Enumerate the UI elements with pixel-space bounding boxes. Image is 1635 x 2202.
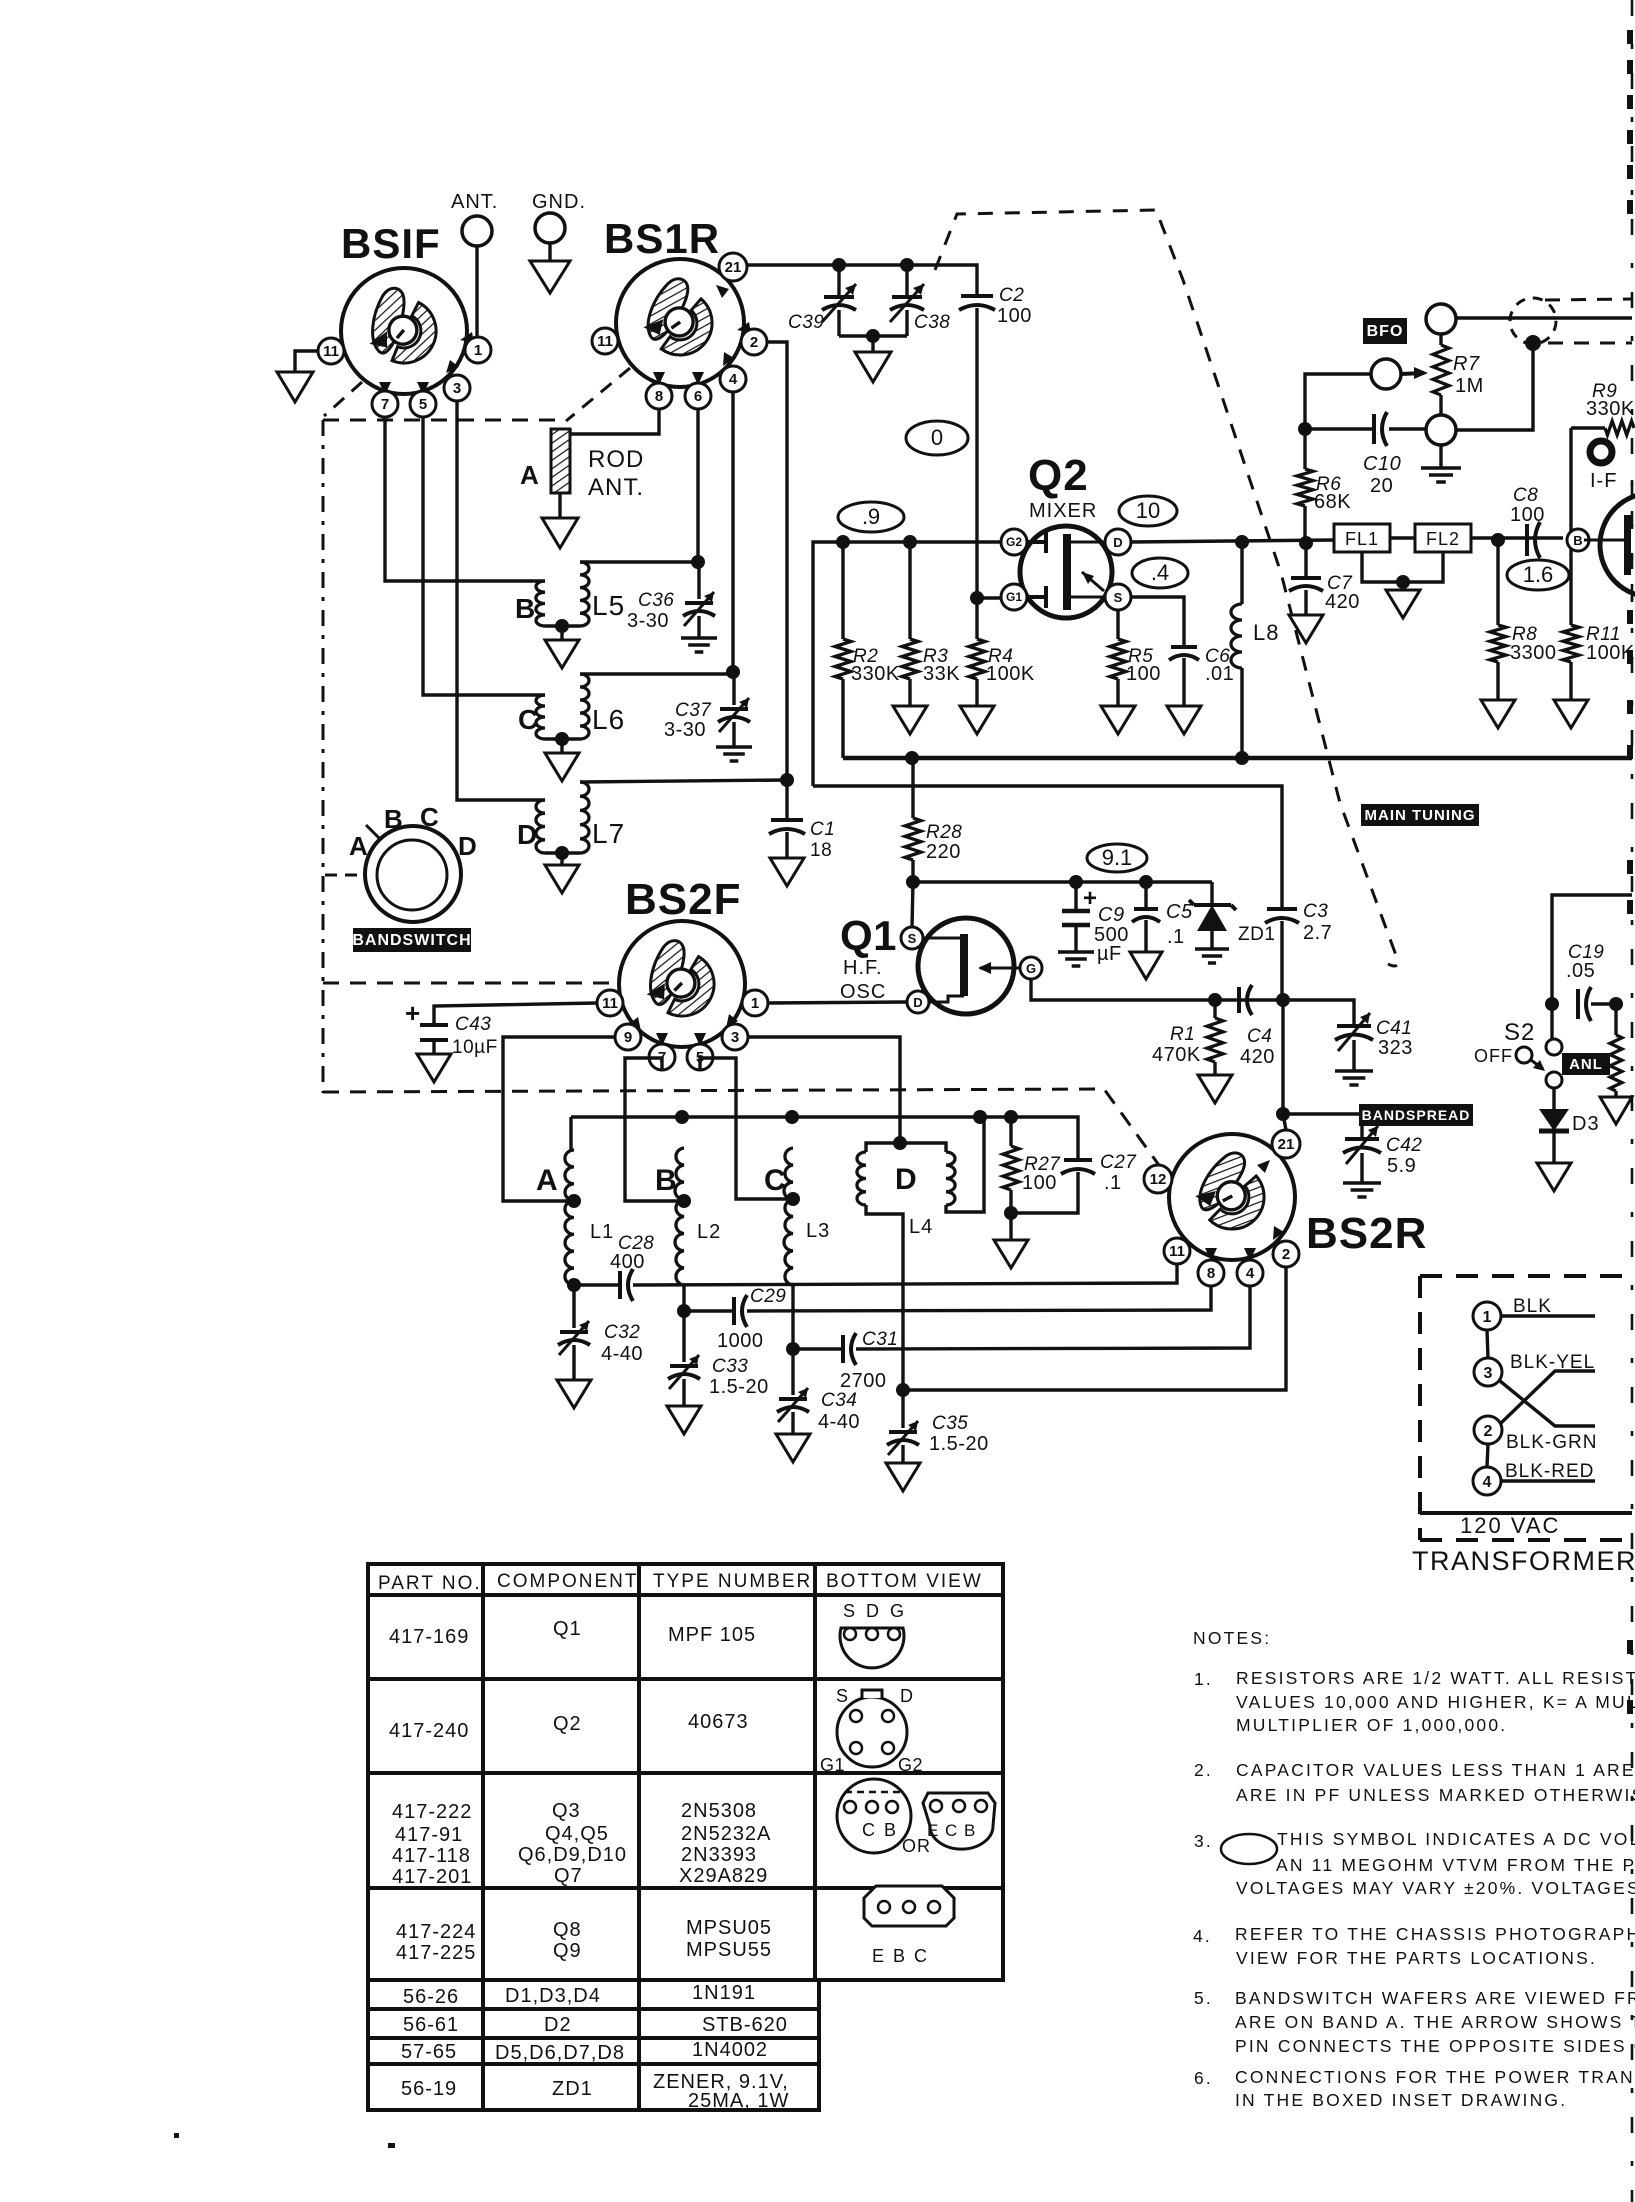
svg-text:2N5308: 2N5308 xyxy=(681,1800,757,1822)
resistor R3 33K xyxy=(908,542,911,639)
wire top right to S2 node xyxy=(1552,895,1632,1004)
capacitor C6 .01 xyxy=(1131,597,1184,647)
BS1F pin 7 xyxy=(372,391,398,417)
svg-text:BLK-YEL: BLK-YEL xyxy=(1510,1352,1595,1373)
page edge specks xyxy=(1627,30,1633,44)
BS2F pin 3 xyxy=(722,1024,748,1050)
svg-text:12: 12 xyxy=(1150,1171,1167,1188)
capacitor C29 1000 xyxy=(732,1297,736,1325)
svg-text:ANT.: ANT. xyxy=(451,191,498,213)
svg-text:4.: 4. xyxy=(1193,1926,1212,1946)
svg-text:THIS SYMBOL INDICATES A DC VOL: THIS SYMBOL INDICATES A DC VOL xyxy=(1277,1829,1635,1849)
BFO label xyxy=(1363,318,1407,344)
BS1F pin 11 xyxy=(318,338,344,364)
ANT. terminal xyxy=(451,191,498,337)
BS2R pin 2 xyxy=(1273,1241,1299,1267)
svg-text:400: 400 xyxy=(610,1251,645,1273)
wire BFO terminal to right edge xyxy=(1456,316,1632,319)
svg-text:Q1: Q1 xyxy=(840,912,897,959)
svg-text:1: 1 xyxy=(751,995,759,1012)
svg-text:10µF: 10µF xyxy=(452,1037,498,1058)
trimmer capacitor C33 1.5-20 xyxy=(682,1311,685,1362)
Q2 G2 pin xyxy=(1001,529,1027,555)
svg-text:S: S xyxy=(1114,590,1123,605)
svg-text:Q8: Q8 xyxy=(553,1919,582,1941)
svg-text:470K: 470K xyxy=(1152,1044,1201,1066)
transformer pin 4 xyxy=(1473,1467,1501,1495)
svg-text:2: 2 xyxy=(1282,1246,1290,1263)
svg-text:VOLTAGES MAY VARY ±20%. VOLTAG: VOLTAGES MAY VARY ±20%. VOLTAGES. xyxy=(1236,1878,1635,1898)
svg-text:VIEW FOR THE PARTS LOCATIONS.: VIEW FOR THE PARTS LOCATIONS. xyxy=(1236,1948,1597,1968)
transistor Q2 mixer xyxy=(1020,526,1112,618)
svg-text:330K: 330K xyxy=(851,663,900,685)
MAIN TUNING label xyxy=(1361,804,1479,826)
svg-text:+: + xyxy=(1083,885,1098,912)
svg-text:C38: C38 xyxy=(914,312,950,333)
svg-text:1N4002: 1N4002 xyxy=(692,2039,768,2061)
potentiometer R7 1M xyxy=(1439,334,1442,345)
svg-text:C: C xyxy=(420,802,439,832)
mechanical linkage dashed y=983 to BS2F xyxy=(323,982,618,985)
svg-text:417-240: 417-240 xyxy=(389,1720,469,1742)
resistor at right edge below C19 xyxy=(1614,1004,1617,1035)
svg-text:C3: C3 xyxy=(1303,901,1328,922)
svg-text:MIXER: MIXER xyxy=(1029,500,1097,522)
wire BS2R pin2 row xyxy=(896,1383,910,1397)
tank top rail xyxy=(571,1117,1078,1160)
svg-text:4-40: 4-40 xyxy=(601,1343,643,1365)
svg-text:S: S xyxy=(908,931,917,946)
svg-text:FL2: FL2 xyxy=(1426,529,1460,549)
coil L3 xyxy=(784,1148,793,1285)
BS2R pin 12 xyxy=(1144,1165,1172,1193)
wire BS1R pin 8 to rod antenna xyxy=(570,409,659,434)
svg-text:REFER TO THE CHASSIS PHOTOGRAP: REFER TO THE CHASSIS PHOTOGRAPHS xyxy=(1235,1924,1635,1944)
voltage callout .4 xyxy=(1132,558,1188,588)
svg-text:2700: 2700 xyxy=(840,1370,887,1392)
wire BS2F pin5 to L3 tap xyxy=(700,1058,793,1199)
svg-text:100: 100 xyxy=(1022,1172,1057,1194)
svg-text:D3: D3 xyxy=(1572,1113,1600,1135)
svg-text:ANT.: ANT. xyxy=(588,474,644,501)
svg-text:Q2: Q2 xyxy=(553,1713,582,1735)
svg-text:417-118: 417-118 xyxy=(392,1845,471,1867)
bandswitch wafer BS1R xyxy=(616,259,751,387)
svg-text:1.: 1. xyxy=(1194,1669,1213,1689)
coil L1 xyxy=(565,1150,574,1285)
GND. terminal xyxy=(530,191,586,293)
svg-text:ARE IN PF UNLESS MARKED OTHERW: ARE IN PF UNLESS MARKED OTHERWIS, xyxy=(1236,1785,1635,1805)
svg-text:5.: 5. xyxy=(1194,1988,1213,2008)
svg-text:MPF 105: MPF 105 xyxy=(668,1624,756,1646)
svg-text:.01: .01 xyxy=(1205,663,1234,685)
svg-text:7: 7 xyxy=(381,396,389,413)
trimmer capacitor C34 4-40 xyxy=(791,1349,794,1395)
svg-text:I-F: I-F xyxy=(1590,470,1617,492)
BS2F pin 7 xyxy=(649,1044,675,1070)
voltage callout 9.1 xyxy=(1087,844,1147,872)
BS1R pin 11 xyxy=(592,328,618,354)
svg-text:D: D xyxy=(913,995,922,1010)
svg-text:417-169: 417-169 xyxy=(389,1626,469,1648)
filter FL2 xyxy=(1415,524,1471,552)
resistor R27 100 xyxy=(1009,1117,1012,1146)
svg-text:100: 100 xyxy=(997,305,1032,327)
svg-text:GND.: GND. xyxy=(532,191,586,213)
svg-text:100: 100 xyxy=(1126,663,1161,685)
wire Q1 G down to C4 line xyxy=(1031,979,1354,1026)
svg-text:C5: C5 xyxy=(1166,901,1193,923)
trimmer capacitor C38 xyxy=(905,265,908,297)
diode D3 xyxy=(1552,1088,1555,1111)
svg-text:Q6,D9,D10: Q6,D9,D10 xyxy=(518,1844,627,1866)
Q1 D pin xyxy=(907,991,929,1013)
svg-text:C42: C42 xyxy=(1386,1135,1422,1156)
trimmer capacitor C37 3-30 xyxy=(732,672,735,705)
svg-text:D5,D6,D7,D8: D5,D6,D7,D8 xyxy=(495,2042,625,2064)
wire C4 node down to bandspread node xyxy=(1281,1000,1284,1114)
wire BS2R pin4 row xyxy=(786,1342,800,1356)
svg-text:323: 323 xyxy=(1378,1037,1413,1059)
svg-text:E B C: E B C xyxy=(872,1946,929,1966)
svg-text:417-91: 417-91 xyxy=(395,1824,463,1846)
BS1F pin 3 xyxy=(444,375,470,401)
svg-text:ZD1: ZD1 xyxy=(1238,924,1275,945)
svg-text:D: D xyxy=(517,819,538,850)
svg-text:4: 4 xyxy=(729,371,738,388)
svg-text:Q4,Q5: Q4,Q5 xyxy=(545,1823,609,1845)
coil L7 xyxy=(536,800,545,853)
resistor R4 100K xyxy=(970,591,984,605)
variable capacitor C42 5.9 xyxy=(1345,1137,1379,1141)
voltage callout 0 xyxy=(906,421,968,455)
svg-text:C2: C2 xyxy=(999,285,1024,306)
BS1R pin 21 xyxy=(719,253,747,281)
svg-text:BS2F: BS2F xyxy=(625,875,741,924)
BS2R pin 11 xyxy=(1164,1238,1190,1264)
svg-text:STB-620: STB-620 xyxy=(702,2014,788,2036)
I-F transistor (partial at edge) xyxy=(1584,441,1635,597)
svg-text:C32: C32 xyxy=(604,1322,640,1343)
voltage callout .9 xyxy=(838,502,904,532)
svg-text:330K: 330K xyxy=(1586,398,1635,420)
page edge broken line overlay xyxy=(1631,480,1634,620)
wire L7 top right xyxy=(580,780,787,782)
svg-text:1.6: 1.6 xyxy=(1523,562,1554,587)
tuning gang dashed linkage top xyxy=(935,210,1398,966)
svg-text:L7: L7 xyxy=(592,818,625,849)
svg-text:2: 2 xyxy=(750,334,758,351)
Q1 S pin xyxy=(901,927,923,949)
voltage callout 1.6 xyxy=(1507,560,1569,590)
svg-text:68K: 68K xyxy=(1314,491,1351,513)
BFO terminal lower xyxy=(1426,415,1456,445)
Q2 bottom view xyxy=(837,1697,907,1767)
svg-text:PIN CONNECTS THE OPPOSITE SIDE: PIN CONNECTS THE OPPOSITE SIDES O xyxy=(1235,2036,1635,2056)
wire C2 down to G1 node xyxy=(975,308,978,598)
bandswitch wafer BS2F xyxy=(619,921,745,1047)
svg-text:L4: L4 xyxy=(909,1216,933,1238)
svg-text:PART NO.: PART NO. xyxy=(378,1573,482,1594)
trimmer capacitor C36 3-30 xyxy=(697,562,700,599)
svg-text:6.: 6. xyxy=(1194,2068,1213,2088)
svg-text:BSIF: BSIF xyxy=(341,220,441,267)
BANDSPREAD label xyxy=(1359,1104,1473,1126)
svg-text:D2: D2 xyxy=(544,2014,572,2036)
svg-text:11: 11 xyxy=(597,333,613,350)
svg-text:3300: 3300 xyxy=(1510,642,1557,664)
transformer wire BLK-YEL xyxy=(1500,1371,1595,1424)
mechanical linkage horizontal dashed y=420 xyxy=(323,419,566,422)
svg-text:21: 21 xyxy=(725,259,742,276)
wire BS1R pin21 to C2 xyxy=(747,265,977,296)
wire G1 xyxy=(977,596,1002,599)
svg-text:VALUES 10,000 AND HIGHER, K= A: VALUES 10,000 AND HIGHER, K= A MUL xyxy=(1236,1692,1635,1712)
BS2R pin 4 xyxy=(1237,1260,1263,1286)
svg-text:11: 11 xyxy=(1169,1243,1185,1260)
ground below L6 xyxy=(560,739,563,753)
transformer links xyxy=(1487,1330,1488,1358)
wire lower terminal right to BFO line xyxy=(1456,343,1533,430)
svg-text:Q3: Q3 xyxy=(552,1800,581,1822)
svg-text:3-30: 3-30 xyxy=(664,719,706,741)
svg-text:.9: .9 xyxy=(862,504,880,529)
transformer wire BLK-RED xyxy=(1501,1479,1595,1482)
9.1 supply rail xyxy=(906,875,920,889)
svg-text:BLK-GRN: BLK-GRN xyxy=(1506,1432,1597,1453)
wire Q2 D to FL1 node xyxy=(1131,540,1334,542)
svg-text:A: A xyxy=(520,460,539,490)
svg-text:BLK-RED: BLK-RED xyxy=(1505,1461,1594,1482)
svg-text:MULTIPLIER OF 1,000,000.: MULTIPLIER OF 1,000,000. xyxy=(1236,1715,1507,1735)
stray dots bottom left xyxy=(174,2133,179,2138)
svg-text:NOTES:: NOTES: xyxy=(1193,1628,1271,1648)
mechanical linkage dashes BS1R down-left xyxy=(566,368,630,421)
Q2 G1 pin xyxy=(1001,584,1027,610)
electrolytic capacitor C43 10uF xyxy=(434,1003,597,1025)
Q8 bottom view xyxy=(864,1886,954,1926)
wire FL1-FL2 xyxy=(1390,536,1415,539)
BS1R pin 6 xyxy=(685,383,711,409)
svg-text:IN THE BOXED INSET DRAWING.: IN THE BOXED INSET DRAWING. xyxy=(1235,2090,1567,2110)
svg-text:ZD1: ZD1 xyxy=(552,2078,593,2100)
svg-text:D: D xyxy=(1113,535,1122,550)
svg-text:OSC: OSC xyxy=(840,981,886,1003)
svg-text:9: 9 xyxy=(624,1029,632,1046)
BANDSWITCH label xyxy=(353,928,471,952)
svg-text:120 VAC: 120 VAC xyxy=(1460,1513,1560,1538)
wire BS1R pin2 down to L7 top xyxy=(767,342,787,820)
capacitor C2 100 xyxy=(961,294,993,298)
BS2F pin 5 xyxy=(687,1044,713,1070)
wire R9/R11 vertical through B xyxy=(1569,428,1572,625)
zener diode ZD1 xyxy=(1210,882,1213,905)
BS1R pin 2 xyxy=(741,329,767,355)
wire wiper to R6 node xyxy=(1305,374,1371,429)
svg-text:S: S xyxy=(836,1686,849,1706)
svg-text:2N5232A: 2N5232A xyxy=(681,1823,771,1845)
dashed lines at right edge xyxy=(1545,299,1632,300)
svg-text:B: B xyxy=(515,593,536,624)
svg-text:C: C xyxy=(518,704,539,735)
svg-text:AN 11 MEGOHM VTVM FROM THE PO: AN 11 MEGOHM VTVM FROM THE PO xyxy=(1276,1855,1635,1875)
svg-text:25MA, 1W: 25MA, 1W xyxy=(688,2090,789,2112)
wire BS2R pin11 row xyxy=(574,1283,620,1286)
svg-text:C8: C8 xyxy=(1513,485,1538,506)
svg-text:C: C xyxy=(764,1164,786,1197)
svg-text:S D G: S D G xyxy=(843,1601,907,1621)
R7 wiper terminal xyxy=(1371,359,1401,389)
svg-text:.1: .1 xyxy=(1104,1172,1122,1194)
svg-text:.4: .4 xyxy=(1151,560,1169,585)
BS1F pin 5 xyxy=(410,391,436,417)
svg-text:420: 420 xyxy=(1240,1046,1275,1068)
wire FL2 to C8 xyxy=(1471,536,1563,539)
svg-text:G1: G1 xyxy=(820,1755,845,1775)
svg-text:L3: L3 xyxy=(806,1220,830,1242)
coil L5 xyxy=(536,581,545,626)
svg-text:D: D xyxy=(900,1686,914,1706)
dashed terminal circle right xyxy=(1510,298,1556,344)
capacitor C4 420 xyxy=(1237,987,1241,1013)
svg-text:1000: 1000 xyxy=(717,1330,764,1352)
capacitor C8 100 xyxy=(1525,524,1529,556)
capacitor C1 18 xyxy=(771,818,803,822)
svg-text:BANDSWITCH WAFERS ARE VIEWED F: BANDSWITCH WAFERS ARE VIEWED FRO xyxy=(1235,1988,1635,2008)
svg-text:RESISTORS ARE 1/2 WATT. ALL RE: RESISTORS ARE 1/2 WATT. ALL RESIST xyxy=(1236,1668,1635,1688)
svg-text:220: 220 xyxy=(926,841,961,863)
svg-text:B: B xyxy=(384,804,403,834)
svg-text:B: B xyxy=(1573,533,1582,548)
svg-text:L1: L1 xyxy=(590,1221,614,1243)
svg-text:C37: C37 xyxy=(675,700,712,721)
svg-text:3: 3 xyxy=(453,380,461,397)
svg-text:S2: S2 xyxy=(1504,1019,1535,1046)
svg-text:1M: 1M xyxy=(1455,375,1484,397)
BS1F pin 1 xyxy=(465,337,491,363)
FL ground wires xyxy=(1362,552,1443,582)
transformer pin 3 xyxy=(1474,1358,1502,1386)
svg-text:56-61: 56-61 xyxy=(403,2014,459,2036)
wire BS1R pin4 down to L6 top xyxy=(580,392,733,674)
svg-text:11: 11 xyxy=(602,995,618,1012)
wire BS2F pin7 to L2 tap xyxy=(625,1058,684,1201)
wire Q1 S up to rail xyxy=(912,882,913,927)
transformer wire BLK xyxy=(1501,1314,1595,1317)
Q2 D pin xyxy=(1105,529,1131,555)
wire BS1F pin5 to L6 xyxy=(423,417,545,695)
svg-text:X29A829: X29A829 xyxy=(679,1865,768,1887)
svg-text:56-19: 56-19 xyxy=(401,2078,457,2100)
capacitor C31 2700 xyxy=(841,1335,845,1363)
resistor R28 220 xyxy=(911,758,914,818)
svg-text:4: 4 xyxy=(1246,1265,1255,1282)
svg-text:Q9: Q9 xyxy=(553,1940,582,1962)
svg-text:21: 21 xyxy=(1278,1136,1295,1153)
svg-text:.05: .05 xyxy=(1566,960,1595,982)
svg-text:Q1: Q1 xyxy=(553,1618,582,1640)
svg-text:5: 5 xyxy=(419,396,427,413)
bandswitch wafer BS2R xyxy=(1169,1134,1295,1261)
ground at BS1F pin 11 xyxy=(277,372,313,402)
svg-text:C43: C43 xyxy=(455,1014,491,1035)
capacitor C5 .1 xyxy=(1139,875,1153,889)
svg-text:1: 1 xyxy=(474,342,482,359)
wire BS1R pin6 down to L5 top xyxy=(580,409,698,562)
capacitor C9 500uF xyxy=(1069,875,1083,889)
filter FL1 xyxy=(1334,524,1390,552)
resistor R11 100K xyxy=(1563,625,1579,662)
svg-text:C35: C35 xyxy=(932,1413,968,1434)
transformer pin 1 xyxy=(1473,1302,1501,1330)
svg-text:3.: 3. xyxy=(1194,1831,1213,1851)
BFO terminal top xyxy=(1426,304,1456,334)
transformer inset dashed box xyxy=(1420,1274,1632,1278)
svg-text:417-222: 417-222 xyxy=(392,1801,472,1823)
svg-text:3-30: 3-30 xyxy=(627,610,669,632)
resistor R1 470K xyxy=(1213,1000,1216,1018)
transformer wire BLK-GRN xyxy=(1500,1381,1595,1426)
parts table xyxy=(368,1564,1003,2110)
svg-text:0: 0 xyxy=(931,425,943,450)
capacitor C28 400 xyxy=(618,1271,622,1299)
svg-text:L2: L2 xyxy=(697,1221,721,1243)
svg-text:33K: 33K xyxy=(923,663,960,685)
svg-text:C27: C27 xyxy=(1100,1152,1137,1173)
svg-text:10: 10 xyxy=(1136,498,1160,523)
capacitor C7 420 xyxy=(1299,536,1313,550)
svg-text:417-225: 417-225 xyxy=(396,1942,476,1964)
capacitor C3 2.7 xyxy=(1267,907,1297,911)
svg-text:100K: 100K xyxy=(986,663,1035,685)
svg-text:100: 100 xyxy=(1510,504,1545,526)
svg-text:MPSU05: MPSU05 xyxy=(686,1917,772,1939)
svg-text:C29: C29 xyxy=(750,1286,786,1307)
page edge broken line xyxy=(1631,0,1634,2202)
svg-text:BANDSWITCH: BANDSWITCH xyxy=(352,932,471,949)
svg-text:2: 2 xyxy=(1484,1423,1493,1440)
I-F transistor base pin B xyxy=(1567,529,1589,551)
svg-text:FL1: FL1 xyxy=(1345,529,1379,549)
svg-text:G: G xyxy=(1026,961,1036,976)
wire BS2R pin21 up xyxy=(1283,1114,1286,1130)
coil L8 xyxy=(1235,535,1249,549)
svg-text:C41: C41 xyxy=(1376,1018,1412,1039)
BS2F pin 11 xyxy=(597,990,623,1016)
mechanical linkage dashed y=1092 to BS2R xyxy=(323,1089,1174,1186)
svg-text:D: D xyxy=(895,1163,917,1196)
note 3 ellipse symbol xyxy=(1221,1834,1277,1864)
svg-text:C9: C9 xyxy=(1098,904,1125,926)
svg-text:3: 3 xyxy=(731,1029,739,1046)
svg-text:R1: R1 xyxy=(1170,1024,1195,1045)
wire BS2F pin1 to Q1 D xyxy=(768,1002,907,1003)
coil L2 xyxy=(675,1148,684,1285)
trimmer capacitor C32 4-40 xyxy=(572,1285,575,1328)
svg-text:C39: C39 xyxy=(788,312,824,333)
trimmer capacitor C39 xyxy=(837,265,840,297)
Q1 G pin xyxy=(1020,957,1042,979)
svg-text:420: 420 xyxy=(1325,591,1360,613)
mechanical linkage dashes BS1F to corner xyxy=(324,382,362,416)
wire BS1F pin7 to L5 xyxy=(385,417,545,581)
lower bus wire y=786 (osc coupling) xyxy=(813,786,1282,909)
ANL label xyxy=(1562,1053,1610,1075)
svg-text:G2: G2 xyxy=(1006,535,1022,549)
svg-text:417-224: 417-224 xyxy=(396,1921,476,1943)
svg-text:ROD: ROD xyxy=(588,446,644,473)
svg-text:2.7: 2.7 xyxy=(1303,922,1332,944)
